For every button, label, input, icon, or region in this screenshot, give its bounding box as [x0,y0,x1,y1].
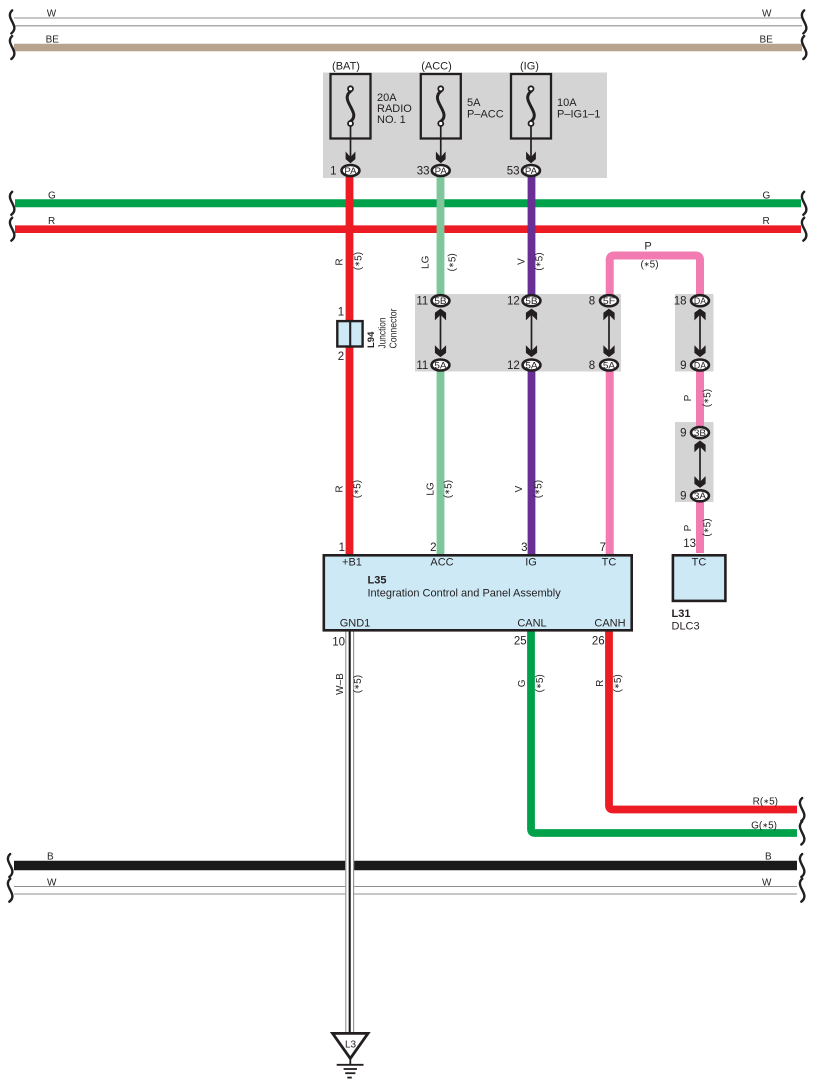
svg-text:R: R [595,680,606,687]
svg-text:3A: 3A [694,491,707,502]
svg-text:DA: DA [694,296,707,307]
svg-text:Integration Control and Panel: Integration Control and Panel Assembly [368,588,562,600]
svg-text:TC: TC [692,557,707,569]
svg-text:(∗5): (∗5) [702,518,713,536]
svg-text:PA: PA [435,166,448,177]
svg-text:BE: BE [760,35,774,46]
svg-text:1: 1 [338,307,344,319]
svg-text:(ACC): (ACC) [421,61,452,73]
svg-text:V: V [514,485,525,492]
svg-text:W: W [47,9,57,20]
svg-text:(IG): (IG) [520,61,539,73]
svg-text:(∗5): (∗5) [533,480,544,498]
svg-text:11: 11 [416,296,428,308]
svg-text:8: 8 [589,296,595,308]
svg-text:R: R [763,216,770,227]
svg-text:(∗5): (∗5) [640,260,658,271]
svg-text:V: V [517,258,528,265]
svg-text:(∗5): (∗5) [447,253,458,271]
svg-text:LG: LG [426,482,437,496]
svg-text:3B: 3B [694,428,706,439]
svg-text:W–B: W–B [335,673,346,695]
svg-text:(∗5): (∗5) [353,675,364,693]
svg-text:TC: TC [602,557,617,569]
svg-text:CANH: CANH [594,618,625,630]
svg-text:G: G [48,190,56,201]
svg-text:5A: 5A [525,360,538,371]
svg-text:R: R [335,258,346,265]
svg-text:5A: 5A [603,360,616,371]
svg-text:(∗5): (∗5) [535,674,546,692]
svg-text:53: 53 [507,166,520,178]
svg-text:10: 10 [332,637,345,649]
svg-text:+B1: +B1 [342,557,362,569]
svg-text:L94: L94 [366,331,377,348]
svg-text:B: B [765,852,772,863]
svg-text:12: 12 [507,296,520,308]
svg-text:DA: DA [694,360,707,371]
svg-text:13: 13 [683,538,696,550]
svg-text:P–IG1–1: P–IG1–1 [557,108,600,120]
svg-text:(∗5): (∗5) [702,389,713,407]
svg-text:DLC3: DLC3 [672,621,700,633]
svg-text:R: R [335,485,346,492]
svg-text:5A: 5A [467,97,481,109]
svg-text:W: W [47,878,57,889]
svg-text:ACC: ACC [430,557,453,569]
svg-text:(BAT): (BAT) [332,61,360,73]
svg-text:5F: 5F [603,296,615,307]
svg-text:LG: LG [420,255,431,269]
svg-text:5B: 5B [525,296,537,307]
svg-text:P: P [683,394,694,401]
svg-text:NO. 1: NO. 1 [377,114,406,126]
svg-text:2: 2 [338,351,344,363]
svg-text:L35: L35 [368,575,387,587]
svg-text:8: 8 [589,360,595,372]
svg-text:P–ACC: P–ACC [467,108,504,120]
svg-text:9: 9 [680,360,686,372]
svg-text:1: 1 [339,542,345,554]
svg-text:5B: 5B [434,296,446,307]
svg-text:G: G [517,679,528,687]
svg-text:B: B [47,852,54,863]
svg-text:2: 2 [430,542,436,554]
svg-text:(∗5): (∗5) [443,480,454,498]
svg-text:L3: L3 [345,1040,357,1051]
svg-text:9: 9 [680,491,686,503]
svg-text:18: 18 [674,296,687,308]
svg-text:CANL: CANL [517,618,546,630]
svg-text:R: R [48,216,55,227]
svg-text:5A: 5A [434,360,447,371]
svg-text:33: 33 [417,166,430,178]
svg-text:(∗5): (∗5) [352,480,363,498]
svg-text:P: P [683,524,694,531]
svg-text:PA: PA [344,166,357,177]
svg-text:25: 25 [514,636,527,648]
svg-text:(∗5): (∗5) [353,252,364,270]
svg-text:GND1: GND1 [340,618,371,630]
svg-text:3: 3 [521,542,527,554]
svg-text:Junction: Junction [377,318,388,349]
svg-text:11: 11 [416,360,428,372]
svg-text:1: 1 [330,166,336,178]
svg-text:(∗5): (∗5) [613,674,624,692]
svg-text:P: P [644,241,651,253]
svg-text:9: 9 [680,427,686,439]
svg-text:Connector: Connector [388,308,399,349]
svg-text:26: 26 [592,636,605,648]
svg-text:IG: IG [525,557,537,569]
svg-text:7: 7 [600,542,606,554]
svg-text:W: W [762,878,772,889]
svg-text:BE: BE [46,35,60,46]
svg-text:PA: PA [525,166,538,177]
svg-text:L31: L31 [672,608,691,620]
svg-text:G: G [763,190,771,201]
svg-text:(∗5): (∗5) [534,252,545,270]
svg-text:10A: 10A [557,97,577,109]
svg-text:W: W [762,9,772,20]
svg-text:12: 12 [507,360,520,372]
